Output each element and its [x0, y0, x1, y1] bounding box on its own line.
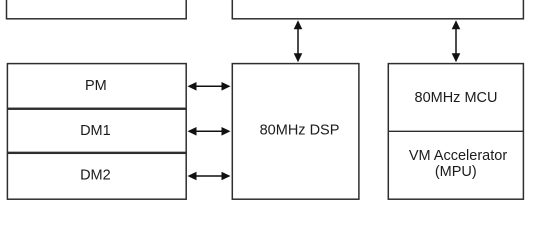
arrow: top bus to MCU (bidirectional, vertical): [452, 20, 461, 62]
svg-text:80MHz DSP: 80MHz DSP: [260, 123, 340, 139]
block: top-right box (cut off at top): [232, 0, 523, 19]
arrow: top bus to DSP (bidirectional, vertical): [294, 20, 303, 62]
block: top-left box (cut off at top): [7, 0, 187, 19]
block: MCU / VM accelerator box: [388, 64, 523, 200]
svg-text:PM: PM: [85, 78, 107, 94]
svg-text:VM Accelerator: VM Accelerator: [409, 148, 507, 164]
svg-text:80MHz MCU: 80MHz MCU: [415, 90, 498, 106]
block: PM memory box: [7, 64, 186, 109]
svg-text:DM1: DM1: [80, 123, 111, 139]
block: DM1 memory box: [7, 109, 186, 152]
arrow: DM1 to DSP (bidirectional): [188, 127, 231, 136]
svg-text:DM2: DM2: [80, 168, 111, 184]
svg-text:(MPU): (MPU): [435, 164, 477, 180]
block: 80MHz DSP box: [232, 64, 359, 200]
divider: MCU / MPU separator: [388, 130, 523, 132]
arrow: DM2 to DSP (bidirectional): [188, 172, 231, 181]
block: DM2 memory box: [7, 153, 186, 199]
arrow: PM to DSP (bidirectional): [188, 82, 231, 91]
